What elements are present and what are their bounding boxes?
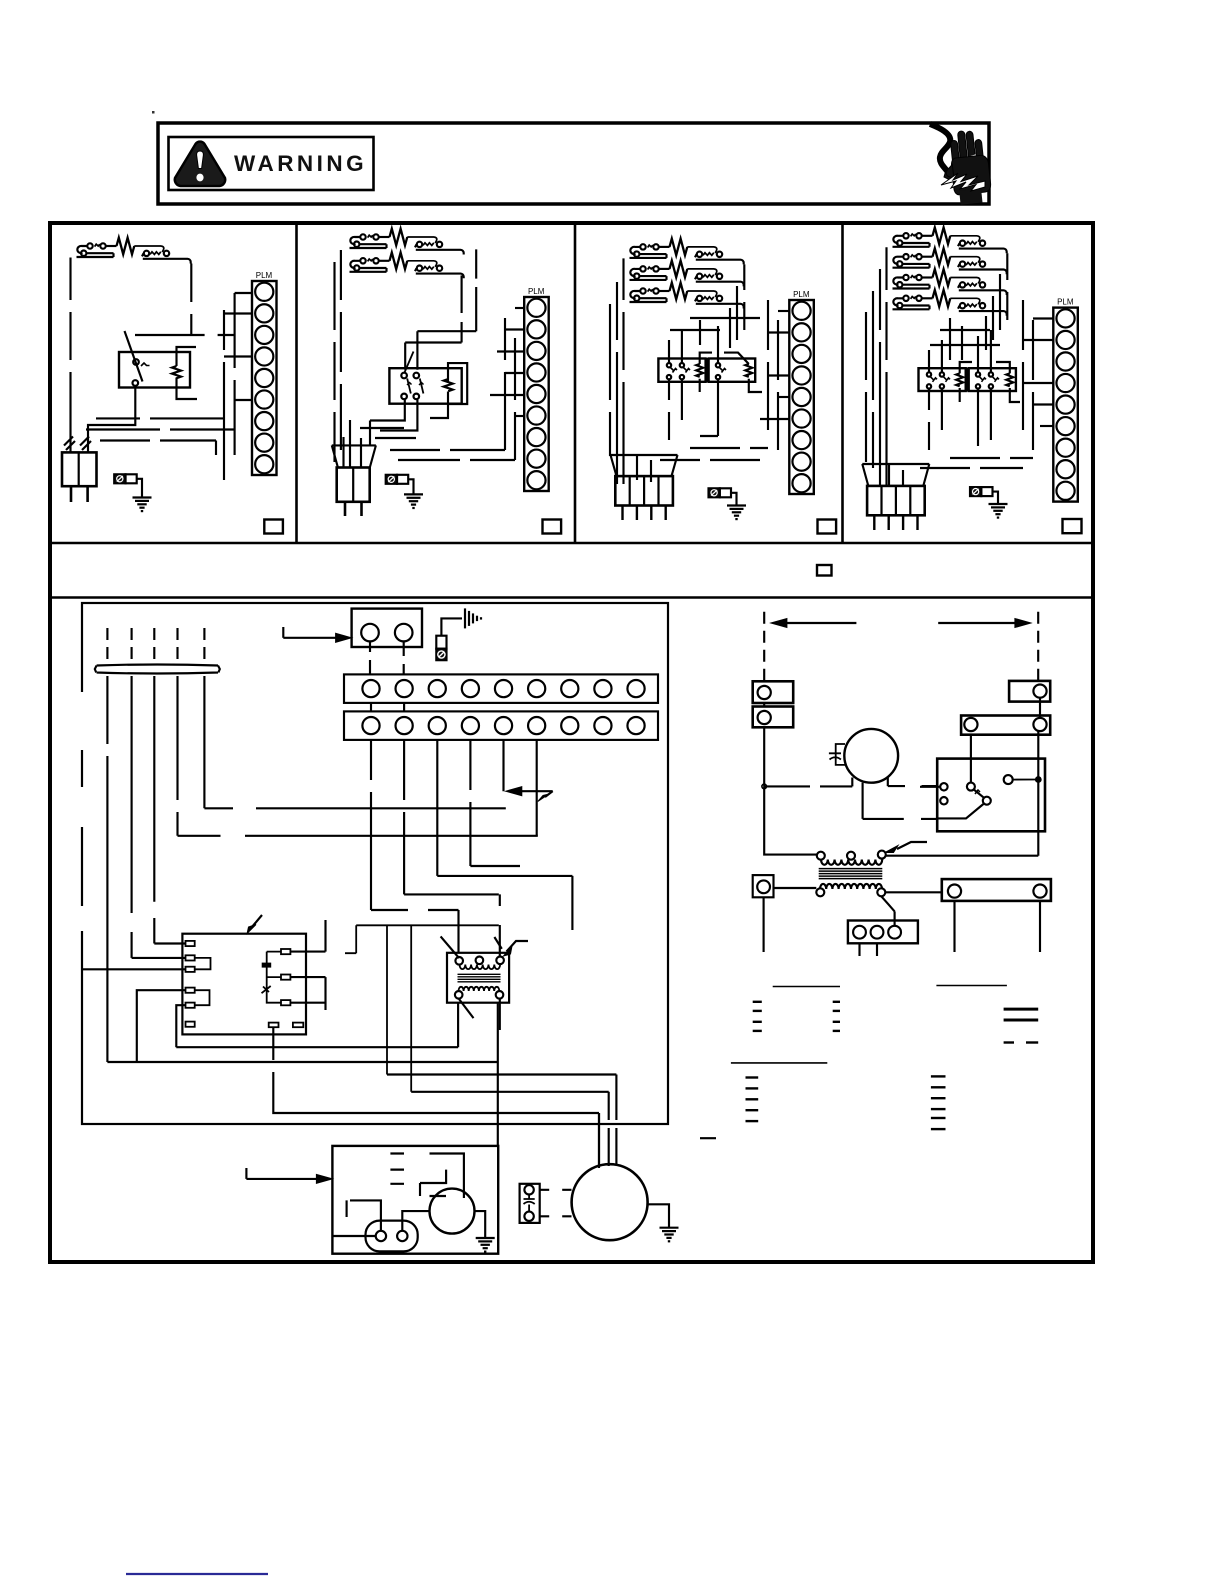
heat relay box right [709,359,756,382]
field wiring left arrow [787,622,857,624]
arrow to T1 [507,941,529,952]
3-terminal box [848,921,918,944]
wire R2 down to switch [970,735,972,783]
limit switch / heater element row 1 [77,238,191,264]
inducer motor [844,729,898,783]
field wiring arrows [522,790,553,792]
PLM stub wires [778,310,789,312]
fuse wire to ground [441,618,462,635]
arrow to connector [282,627,284,638]
wire motor bottom loop [863,783,938,819]
wire 24V box [764,888,817,952]
pressure switch box [937,759,1045,832]
ground [404,494,423,508]
warning inner box [169,137,374,190]
capacitor symbol [524,1195,535,1212]
switch contacts [940,783,947,790]
T2 secondary terminals [816,888,824,896]
fuse wire to ground [137,479,142,498]
ground [727,506,746,520]
wires below 3-terminal box [860,943,878,956]
board edge pads [186,941,195,946]
wire left vertical with junction [763,727,765,786]
wires below relays [660,380,768,460]
schematic outer frame [50,223,1093,1262]
wire verticals to PLM [505,318,515,460]
ground [989,504,1008,518]
divider bar [706,359,709,382]
wire junction to motor [764,778,937,787]
T2 core [819,869,883,879]
svg-text:PLM: PLM [793,290,810,299]
plug funnel [332,445,376,467]
terminal strip lower [344,711,658,740]
ground (right) [465,608,481,628]
legend underline 1 [773,986,840,988]
ground [133,498,152,512]
svg-text:PLM: PLM [528,287,545,296]
coil wire loop [177,347,198,399]
dashed field wires [763,612,765,681]
terminal box L1b [753,707,794,728]
fuse wire to ground [408,479,413,494]
blower compartment box [332,1146,498,1254]
wire box to box [764,698,1040,718]
PLM stub wires [235,292,252,294]
plug entry wires [344,420,362,467]
wire bundle bottom [360,428,515,460]
legend entries col2 [746,1076,759,1078]
blower ground wire [475,1211,486,1238]
control board [182,934,306,1035]
terminal box R3 [942,879,1051,901]
ground [660,1228,679,1242]
T2 primary winding [821,860,882,865]
dashes inside [390,1154,404,1184]
plug P3 (4 pole) [615,476,673,505]
trunk bottom horizontals [107,1003,497,1146]
plug P1 [62,452,97,486]
wire vertical to PLM b [234,293,236,455]
left edge wire gaps [80,692,84,750]
relay blade [125,331,143,382]
inducer capacitor [829,744,845,765]
svg-text:PLM: PLM [1057,298,1074,307]
legend entries col1 [753,1001,762,1003]
wire staircase to relay [405,331,476,370]
supply wires below clamp [107,676,204,1062]
switch blade [974,790,984,798]
aux contact pair [1004,775,1013,784]
fuse F2 [386,475,397,484]
plug P4 (4 pole) [867,486,925,515]
terminal box 24V [753,875,774,897]
main board outline [82,603,668,1124]
low voltage connector box [352,609,422,647]
arrow to blower box [245,1168,247,1179]
T2 secondary right wire [885,891,942,893]
strip model box [817,565,832,576]
coil wires [700,353,762,392]
panel row bottom divider [50,542,1093,544]
page mark dot [152,111,155,114]
wire board bottom out [273,1027,599,1113]
heat relay box right [969,368,1016,391]
fuse wire to ground [731,493,737,506]
heat relay box [389,368,461,404]
stray wire left [700,1137,716,1139]
T1 primary winding [460,965,501,970]
T1 secondary terminals [455,991,463,999]
panel 4 corner box [1063,519,1082,533]
plug funnel [862,464,929,486]
plug funnel [611,455,678,476]
heat relay box left [919,368,966,391]
board bottom pads [269,1023,279,1028]
T1 secondary winding [459,987,500,991]
capacitor wires [332,1200,429,1236]
relay blade glyphs [930,376,999,382]
legend entries col3 [931,1075,946,1077]
door switch fuse [436,636,446,649]
relay contacts [667,363,671,367]
relay coils [956,373,963,386]
wire mid web [670,300,778,450]
board mid bracket [267,952,281,1003]
relay switch contacts [133,359,139,365]
arrow to T2 [897,842,927,849]
board capacitor mark [262,963,271,967]
wire right drops [730,264,744,348]
board input wires [82,944,186,1063]
fuse F1 [114,474,125,483]
wire trunk mid [437,876,572,930]
relay contacts [401,373,407,379]
motor wires top [598,1113,600,1166]
panel divider 2-3 [574,224,577,543]
wire vertical to PLM a [223,310,225,480]
cable clamp [95,665,220,674]
wire left drop [69,258,71,438]
capacitor wires [540,1190,572,1217]
wires connector to strip [370,641,404,674]
blower motor circle [430,1189,475,1234]
field wiring right arrow [938,622,1015,624]
T1 primary terminals [455,957,463,965]
wire relay top to PLM [135,334,235,336]
wire bundle bottom [86,418,235,455]
transformer T2 primary terminals [817,852,825,860]
wire right drops [986,253,1007,350]
wires relay top [929,330,991,372]
legend underline 2 [936,985,1007,987]
T1 core [458,974,501,982]
T1 wires [499,894,501,956]
svg-text:PLM: PLM [256,271,273,280]
heater element rows [893,228,1007,254]
wires relay bottom to plug [370,400,417,445]
plug P2 [337,468,370,502]
heater element rows [630,239,744,265]
wires below relays [920,389,1033,468]
strip bottom divider [50,596,1093,599]
divider bar [966,368,969,391]
relay coil [172,366,181,378]
relay blade glyphs [670,367,726,373]
transformer T1 [447,953,509,1003]
run capacitor oval [366,1221,418,1252]
wire mid web [930,300,1033,450]
PLM stub wires [1033,317,1053,319]
plug pins [873,515,875,530]
wire left drops [335,250,341,462]
wire relay bottom to plug [88,386,135,443]
wire into left contact [920,786,940,788]
ground [476,1238,495,1252]
wire trunk horizontals [204,807,505,809]
main blower motor [572,1164,648,1240]
heat relay box [119,352,190,388]
relay contacts [927,372,931,376]
wires relay top [669,326,718,363]
legend underline 3 [731,1062,827,1064]
relay coils [696,364,703,377]
T2 secondary winding [820,884,882,889]
T1 diagonal wires [441,936,500,1030]
terminal box L1a [753,681,794,703]
pad output stubs [290,952,325,1003]
legend heavy lines [1004,1008,1039,1011]
wire diagonal into T1 right [494,937,501,949]
board mid pads [281,949,290,954]
panel divider 3-4 [841,224,844,543]
motor ground wire [648,1204,670,1227]
coil wire loop [430,363,467,418]
terminal box R1 [1009,681,1050,702]
capacitor C1 box [520,1184,540,1223]
T2 wires [764,786,817,854]
board varistor mark [262,986,271,993]
terminal box R2 [961,716,1050,735]
plug pins [621,506,623,521]
panel divider 1-2 [295,224,298,543]
pad staples [195,958,211,1005]
fuse wire to ground [992,492,998,504]
wire left drops [610,258,624,470]
relay coil [444,379,453,391]
relay blades [405,352,414,373]
fuse F4 [970,487,981,496]
fuse F3 [709,488,720,497]
wire lower diagonal [937,804,984,819]
wires below strip [371,740,537,910]
heat relay box left [658,359,705,382]
footer link line [126,1573,268,1575]
wire right drops [462,249,477,342]
plug entry wires [880,464,903,486]
panel 2 corner box [543,520,562,534]
blower internal wires [420,1154,464,1199]
terminal strip upper [344,674,658,703]
heater element row 1 [350,229,464,255]
plug entry wires with hatch [71,437,89,452]
secondary diagonal to 3-terminal box [881,896,894,925]
panel 1 corner box [264,520,283,534]
panel 3 corner box [818,520,837,534]
electric-shock hand icon [930,124,992,206]
arrow to board [249,915,262,931]
plug pins [344,502,347,516]
plug pins [70,486,73,502]
wire right drop [190,264,192,337]
heater element row 2 [350,252,464,278]
warning triangle icon [175,142,225,186]
plug entry wires [617,455,651,484]
wires right of board [324,920,326,1010]
PLM stub wires [515,307,524,309]
wires below R3 [955,901,1041,952]
wire left drops [866,247,887,480]
coil wires [960,362,1020,402]
wires between strips [371,703,404,712]
incoming supply dashed wires [106,628,108,663]
wire right vertical through box [1037,731,1039,856]
warning banner outer box [158,123,989,204]
